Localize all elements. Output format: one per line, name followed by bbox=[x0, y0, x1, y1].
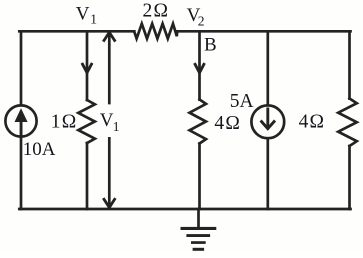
svg-text:5A: 5A bbox=[230, 91, 254, 112]
svg-text:10A: 10A bbox=[23, 139, 56, 160]
svg-text:1Ω: 1Ω bbox=[51, 112, 78, 133]
resistor R2 2ohm zigzag bbox=[134, 24, 177, 39]
wire top right segment bbox=[177, 30, 351, 33]
resistor R4 4ohm zigzag bbox=[338, 99, 357, 147]
wire branch 5A bottom lead bbox=[266, 139, 269, 209]
current source I2 arrow down bbox=[261, 108, 275, 129]
ground stem bbox=[197, 209, 200, 228]
wire branch 5A top lead bbox=[266, 31, 269, 104]
current source I2 5A circle bbox=[251, 105, 284, 138]
svg-text:4Ω: 4Ω bbox=[299, 111, 326, 132]
resistor R1 1ohm zigzag bbox=[78, 100, 95, 143]
svg-text:V: V bbox=[76, 4, 90, 25]
current arrow through R1 (chevron down) bbox=[83, 64, 92, 73]
ground bars bbox=[181, 227, 217, 251]
wire branch middle top lead bbox=[198, 31, 201, 99]
voltage arrow V1 shaft lower bbox=[108, 138, 111, 207]
resistor R3 4ohm zigzag bbox=[190, 100, 207, 144]
wire branch R1 bottom lead bbox=[86, 143, 89, 209]
current source I1 arrow up bbox=[15, 108, 28, 135]
current source I1 10A circle bbox=[5, 105, 36, 136]
label V1 middle with white backing bbox=[99, 105, 126, 138]
wire top left segment bbox=[19, 30, 134, 33]
svg-text:1: 1 bbox=[90, 12, 97, 27]
svg-text:V: V bbox=[100, 110, 114, 131]
svg-text:1: 1 bbox=[113, 119, 120, 134]
wire branch right top lead bbox=[348, 31, 351, 98]
voltage arrow V1 top head bbox=[104, 32, 115, 40]
svg-text:2Ω: 2Ω bbox=[143, 0, 170, 21]
wire left lower bbox=[20, 138, 23, 209]
voltage arrow V1 bottom head bbox=[104, 199, 115, 207]
wire branch middle bottom lead bbox=[198, 144, 201, 210]
wire bottom bbox=[19, 208, 350, 211]
voltage arrow V1 shaft upper bbox=[108, 33, 111, 103]
wire left upper bbox=[20, 31, 23, 104]
svg-text:4Ω: 4Ω bbox=[214, 113, 241, 134]
svg-text:2: 2 bbox=[198, 14, 205, 29]
wire branch R1 top lead bbox=[86, 31, 89, 100]
svg-text:B: B bbox=[204, 35, 217, 56]
wire branch right bottom lead bbox=[348, 146, 351, 209]
current arrow node B (chevron down) bbox=[195, 64, 204, 73]
